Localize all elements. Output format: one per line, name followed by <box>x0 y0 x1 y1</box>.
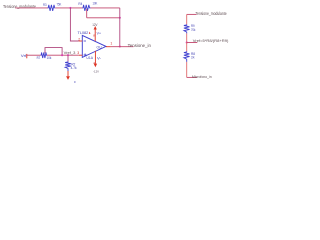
wire vertical from junction down to pin 2 <box>70 8 78 41</box>
resistor R8 <box>184 51 190 62</box>
node junction R2 tap <box>67 54 69 56</box>
unit mark A <box>89 32 91 34</box>
resistor R4 <box>82 5 90 11</box>
pin 1 output stub <box>106 46 111 48</box>
svg-text:70k: 70k <box>191 28 196 32</box>
svg-text:Vref_3: Vref_3 <box>64 50 76 55</box>
svg-text:12V: 12V <box>92 23 98 27</box>
resistor R9 <box>184 24 190 33</box>
wire parallel loop over R7 <box>45 48 62 56</box>
wire stub bottom right <box>187 76 197 78</box>
svg-text:1: 1 <box>110 41 112 45</box>
op-amp minus sign (pin 2) <box>84 40 86 42</box>
svg-text:R4: R4 <box>78 2 82 6</box>
svg-text:75K: 75K <box>57 3 62 7</box>
wire stub top right <box>187 13 197 15</box>
power symbol arrow down (negative rail) <box>66 76 70 80</box>
op-amp U1 triangle <box>82 35 106 57</box>
svg-text:OU: OU <box>97 45 102 49</box>
svg-text:-12V: -12V <box>93 69 99 73</box>
pin 2 stub <box>79 40 83 42</box>
pin V- line <box>94 51 96 64</box>
svg-text:3: 3 <box>77 51 79 55</box>
node junction loop / wire <box>61 54 63 56</box>
pin 3 stub <box>79 54 83 56</box>
svg-text:10k: 10k <box>191 56 195 60</box>
svg-text:R7: R7 <box>37 56 41 60</box>
svg-text:V+: V+ <box>97 32 101 36</box>
wire mid node to R8 <box>186 43 188 52</box>
svg-text:Tensione_modulante: Tensione_modulante <box>3 4 36 9</box>
svg-text:V-: V- <box>97 57 101 61</box>
svg-text:Tensione_modulante: Tensione_modulante <box>195 11 227 16</box>
wire top horizontal input net <box>15 7 47 9</box>
wire feedback vertical to output <box>119 8 121 47</box>
resistor R7 <box>41 52 47 58</box>
node junction Vref tap <box>186 41 188 43</box>
resistor R3 <box>48 5 56 11</box>
svg-text:2: 2 <box>78 38 80 42</box>
power symbol arrow down -12V <box>94 64 97 68</box>
svg-text:U1A: U1A <box>86 56 93 60</box>
wire between R3 and R4 <box>55 7 82 9</box>
svg-text:Vrf: Vrf <box>21 54 27 58</box>
pin V+ line <box>94 29 96 41</box>
node junction at R3/R4 to inverting input <box>69 7 71 9</box>
svg-text:10k: 10k <box>47 56 52 60</box>
wire down to R2 <box>67 55 69 61</box>
wire R9 to mid node <box>186 33 188 42</box>
wire R2 to power arrow <box>67 71 69 76</box>
wire stub mid right <box>187 42 198 44</box>
wire from R4 to feedback corner <box>91 7 120 9</box>
svg-text:TL082: TL082 <box>78 31 89 35</box>
node junction rail/feedback <box>119 17 121 19</box>
power symbol arrow up +12V <box>94 26 97 30</box>
resistor R2 <box>65 61 71 71</box>
svg-text:4.7k: 4.7k <box>71 66 77 70</box>
wire R8 down to bottom label <box>186 62 188 78</box>
svg-text:10K: 10K <box>93 2 98 6</box>
svg-text:R3: R3 <box>43 3 47 7</box>
wire output <box>111 46 134 48</box>
wire down to R9 <box>186 14 188 24</box>
svg-text:Tensione_in: Tensione_in <box>128 43 152 48</box>
svg-text:Vref=5*R8/(R8+R9): Vref=5*R8/(R8+R9) <box>193 38 229 43</box>
wire rail parallel feedback <box>87 17 120 19</box>
node junction feedback/output <box>119 45 121 47</box>
svg-text:Microfono_in: Microfono_in <box>192 74 212 79</box>
wire bottom-left to R7 <box>27 54 41 56</box>
wire R7 to pin 3 <box>47 54 79 56</box>
wire connector from R4 right terminal down <box>86 9 88 18</box>
op-amp plus sign (pin 3) <box>84 54 87 56</box>
